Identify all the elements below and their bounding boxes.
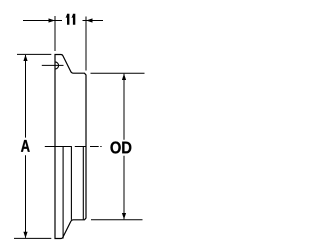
dimension A: bottom extension line <box>14 237 51 239</box>
dimension 11: value label "11" <box>66 14 76 25</box>
dimension 11: right extension line <box>85 17 87 71</box>
dimension A: top arrowhead <box>23 55 27 61</box>
gasket groove arc on flange face <box>55 62 59 69</box>
taper-to-tube edge line <box>70 147 72 220</box>
dimension 11: left dimension line <box>23 20 62 22</box>
dimension OD: label "OD" <box>111 141 132 153</box>
dimension OD: top extension line <box>91 72 145 74</box>
dimension 11: left extension line <box>54 16 56 51</box>
dimension 11: right dimension line <box>83 20 104 22</box>
dimension OD: top arrowhead <box>122 74 126 80</box>
dimension A: top extension line <box>17 53 51 55</box>
ferrule body outline (flange face, lip, taper, tube OD, weld end) <box>55 55 86 239</box>
dimension OD: bottom extension line <box>91 219 143 221</box>
weld bevel edge line <box>82 147 84 220</box>
dimension A: lower dimension line <box>25 155 27 238</box>
dimension A: upper dimension line <box>25 55 27 138</box>
dimension OD: upper dimension line <box>123 74 125 140</box>
dimension OD: bottom arrowhead <box>122 213 126 219</box>
dimension A: label "A" <box>21 140 30 152</box>
dimension 11: left arrowhead <box>49 18 56 22</box>
dimension 11: right arrowhead <box>86 18 93 22</box>
dimension A: bottom arrowhead <box>23 232 27 238</box>
flange rim edge line <box>62 147 64 239</box>
groove leader line <box>42 64 64 66</box>
centerline (dash-dot axis) <box>45 146 102 148</box>
dimension OD: lower dimension line <box>123 156 125 219</box>
